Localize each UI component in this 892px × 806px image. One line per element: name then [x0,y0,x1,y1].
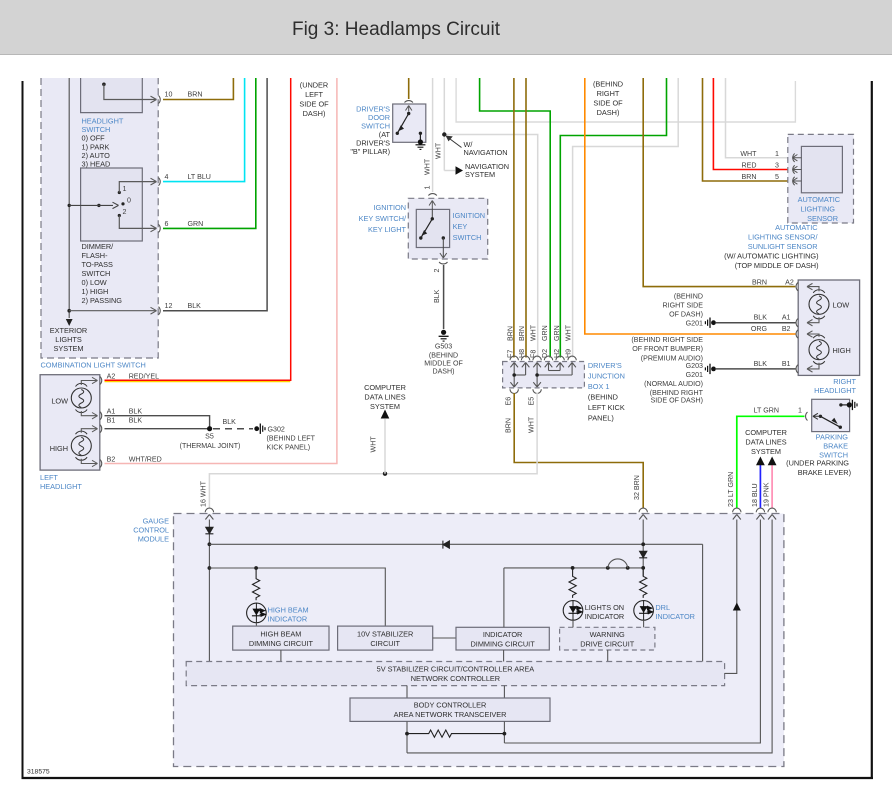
svg-text:DIMMING CIRCUIT: DIMMING CIRCUIT [249,639,314,648]
svg-text:2: 2 [433,269,441,273]
GCM pin 23 connector [733,508,741,519]
svg-text:PARKING: PARKING [816,433,849,442]
wire LED to warning drive circuit [572,620,574,627]
svg-text:LIGHTING SENSOR/: LIGHTING SENSOR/ [748,233,818,242]
svg-text:DATA LINES: DATA LINES [364,393,405,402]
pin B1 connector (right headlight) [754,360,798,373]
svg-text:BRN: BRN [505,418,513,433]
svg-text:BRN: BRN [742,173,757,181]
pin B2 connector (left headlight) [100,456,162,468]
diagram frame left border [22,81,24,779]
svg-text:HIGH BEAM: HIGH BEAM [268,606,309,615]
svg-text:B1: B1 [107,416,116,424]
dimmer switch label [82,242,123,305]
svg-text:LT BLU: LT BLU [188,173,211,181]
svg-text:B2: B2 [782,325,791,333]
svg-text:RIGHT: RIGHT [833,377,856,386]
junction box top connectors [510,356,576,360]
svg-text:DIMMER/: DIMMER/ [82,242,115,251]
svg-text:B2: B2 [107,456,116,464]
svg-text:INDICATOR: INDICATOR [483,630,523,639]
svg-text:(BEHIND: (BEHIND [674,292,703,300]
transceiver lower wires [406,721,408,753]
svg-text:BOX 1: BOX 1 [588,382,610,391]
right headlight internal wires [807,283,819,372]
node: pin 12 junction [67,309,71,313]
svg-text:TO-PASS: TO-PASS [82,260,114,269]
svg-text:LEFT: LEFT [305,90,323,99]
wire BLU arrow to computer data lines [751,457,765,509]
data line (gray, top loop) [456,78,795,122]
GCM pin 18 connector [756,508,764,519]
bulb LOW (left headlight) [51,383,91,412]
pin B1 connector (left headlight) [100,416,142,432]
svg-text:FLASH-: FLASH- [82,251,109,260]
svg-text:SUNLIGHT SENSOR: SUNLIGHT SENSOR [748,242,818,251]
GCM internal: pin 32 branch [642,520,644,577]
headlight switch label [82,117,124,169]
svg-text:ORG: ORG [751,325,767,333]
svg-text:318575: 318575 [27,769,50,776]
svg-text:KEY LIGHT: KEY LIGHT [368,225,407,234]
wire LT GRN parking brake to GCM pin 23 [737,416,805,508]
wire WHT navigation branch (from top edge) [435,78,538,358]
LED DRL indicator [634,601,654,621]
svg-text:LIGHTING: LIGHTING [800,205,835,214]
right headlight box [798,280,859,395]
GCM pin 16 connector [205,508,213,519]
sensor pin 5 connector [742,173,802,185]
svg-text:1: 1 [424,186,432,190]
svg-text:6: 6 [165,220,169,228]
internal wires left headlight [81,377,97,466]
svg-text:(UNDER PARKING: (UNDER PARKING [786,459,849,468]
stub high beam box to 5V box [280,650,282,661]
svg-text:23 LT GRN: 23 LT GRN [727,472,735,507]
svg-text:LT GRN: LT GRN [754,407,779,415]
svg-text:PANEL): PANEL) [588,414,614,423]
wire LT BLU from pin 4 (up to top edge) [163,78,245,182]
wire ORG to right headlight B2 (from top edge) [585,78,796,334]
junction box internal nodes [512,373,516,377]
wire BRN to right headlight A2 (from top edge) [643,78,795,287]
svg-text:COMPUTER: COMPUTER [745,428,787,437]
svg-text:BLK: BLK [188,302,202,310]
box: warning drive circuit (dashed) [560,627,655,650]
svg-text:DASH): DASH) [432,367,454,375]
svg-text:HIGH: HIGH [50,444,68,453]
svg-text:DRIVER'S: DRIVER'S [588,361,622,370]
svg-text:BLK: BLK [754,314,768,322]
svg-text:WARNING: WARNING [590,630,625,639]
svg-text:DRIVE CIRCUIT: DRIVE CIRCUIT [580,640,635,649]
wire WHT to junction H9 (from top edge) [573,78,679,358]
parking brake switch box [812,399,852,431]
svg-text:RIGHT SIDE: RIGHT SIDE [663,301,704,309]
svg-text:INDICATOR: INDICATOR [585,612,625,621]
box: 10V stabilizer circuit [338,626,433,650]
svg-text:5: 5 [775,173,779,181]
svg-text:SWITCH: SWITCH [453,233,482,242]
svg-text:HIGH BEAM: HIGH BEAM [260,630,301,639]
svg-text:F8: F8 [530,350,538,358]
svg-text:10V STABILIZER: 10V STABILIZER [357,630,413,639]
computer data lines system (right) [745,428,787,456]
svg-text:HIGH: HIGH [833,346,851,355]
GCM internal: pin 18 branch (BLU) [504,520,760,744]
svg-text:OF FRONT BUMPER): OF FRONT BUMPER) [632,345,703,353]
GCM internal: pin 19 branch (PNK) [407,520,772,753]
note: under left side of dash [299,81,329,119]
ground G203/G201 (B1) [631,336,716,405]
svg-text:DRL: DRL [655,603,670,612]
node: computer data lines branch (left) [364,383,406,476]
svg-text:SYSTEM: SYSTEM [751,447,781,456]
svg-text:DIMMING CIRCUIT: DIMMING CIRCUIT [471,640,536,649]
pin A2 connector (left headlight) [100,373,159,385]
wire BRN to junction H8 (from top edge) [525,78,527,358]
node at DRL column [641,566,645,570]
GCM internal: pin 16 branch [208,520,210,662]
node at lights-on column [571,566,575,570]
svg-text:E5: E5 [528,397,536,406]
svg-text:BRAKE LEVER): BRAKE LEVER) [798,468,851,477]
svg-text:WHT: WHT [424,158,432,175]
wire WHT/RED from B2 (up to top edge) [105,78,337,464]
wire BLK G203 to B1 [716,368,796,370]
svg-text:AREA NETWORK TRANSCEIVER: AREA NETWORK TRANSCEIVER [394,710,507,719]
wire RED to lighting sensor pin 3 (from top edge) [713,78,793,170]
left headlight box [40,375,100,491]
pin 10 connector [159,91,203,104]
wire BRN from E6 to GCM pin 32 [505,393,644,508]
svg-text:(BEHIND RIGHT SIDE: (BEHIND RIGHT SIDE [631,336,703,344]
driver's door switch label [350,105,390,157]
DRL indicator label [655,603,695,621]
node on right transceiver leg [503,732,507,736]
svg-text:G503: G503 [435,342,452,350]
svg-text:(NORMAL AUDIO): (NORMAL AUDIO) [644,380,703,388]
box: body controller area network transceiver [350,698,550,721]
svg-text:5V STABILIZER CIRCUIT/CONTROLL: 5V STABILIZER CIRCUIT/CONTROLLER AREA [377,665,535,674]
sensor pin 3 connector [742,162,802,174]
resistor (DRL indicator) [640,568,647,598]
wire: combination switch common feed (vertical, from top) [68,78,70,318]
wires 5V box to transceiver [406,686,408,698]
svg-text:BLK: BLK [754,360,768,368]
svg-text:LIGHTS ON: LIGHTS ON [585,603,624,612]
svg-text:SYSTEM: SYSTEM [370,402,400,411]
pin B2 connector (right headlight) [751,325,798,338]
svg-text:1: 1 [775,150,779,158]
GCM bus line 2b (indicators) [504,567,643,569]
diagram frame right border [871,81,873,779]
svg-text:BLK: BLK [223,418,237,426]
svg-text:B1: B1 [782,360,791,368]
node junctions on pin16 line [208,542,212,546]
svg-text:WHT: WHT [530,324,538,341]
svg-text:BRN: BRN [752,279,767,287]
ground (parking brake switch) [852,400,857,410]
sensor caption [724,223,818,270]
svg-text:1: 1 [123,185,127,193]
svg-text:IGNITION: IGNITION [453,211,485,220]
pin A2 connector (right headlight) [752,279,798,291]
ignition key switch / key light box [408,194,487,259]
node on left transceiver leg [405,732,409,736]
svg-text:CONTROL: CONTROL [133,526,169,535]
wire WHT to lighting sensor pin 1 (from top edge) [726,78,794,158]
svg-text:RIGHT: RIGHT [597,89,620,98]
wire BRN to lighting sensor pin 5 (from top edge) [703,78,794,181]
svg-text:LEFT: LEFT [40,473,58,482]
driver's junction box 1 [503,362,585,388]
resistor (lights on indicator) [569,568,576,598]
svg-text:(BEHIND: (BEHIND [429,351,458,359]
resistor (CAN termination) [407,730,505,737]
svg-text:LIGHTS: LIGHTS [55,335,82,344]
lights on indicator label [585,603,625,621]
svg-text:32 BRN: 32 BRN [633,475,641,500]
svg-text:2) PASSING: 2) PASSING [82,296,123,305]
svg-text:3) HEAD: 3) HEAD [82,159,111,168]
svg-text:GRN: GRN [541,325,549,341]
svg-text:G201: G201 [686,371,703,379]
svg-text:A1: A1 [107,408,116,416]
junction box labels [588,361,625,423]
svg-text:(BEHIND: (BEHIND [588,393,618,402]
svg-text:18 BLU: 18 BLU [751,483,759,507]
ground (driver's door switch) [416,145,426,150]
ignition key switch labels [359,203,485,242]
dimmer/flash-to-pass switch (inner box) [68,168,157,241]
node: high beam branch [254,566,258,570]
node: W/ NAVIGATION junction [442,132,507,157]
combination light switch box [41,78,159,370]
svg-text:NAVIGATION: NAVIGATION [464,148,508,157]
high beam indicator label [268,606,309,624]
sensor pin 1 connector [740,150,801,162]
wire to pin 12 [69,310,156,312]
svg-text:G302: G302 [268,425,285,433]
svg-text:DASH): DASH) [597,108,620,117]
diode at pin 16 [205,527,213,534]
bulb HIGH (right headlight) [809,335,851,364]
wire 10V stabilizer to indicator dimming [433,637,456,639]
wire BLK from A1 to S5 [105,416,210,429]
pin 6 connector [159,220,204,233]
svg-text:2: 2 [123,208,127,216]
svg-text:IGNITION: IGNITION [374,203,406,212]
wire DRL LED to warning drive circuit [643,620,645,627]
svg-text:RED/YEL: RED/YEL [129,373,159,381]
svg-text:(UNDER: (UNDER [300,81,328,90]
junction pin labels (rotated) [507,324,573,358]
svg-text:BLK: BLK [433,289,441,303]
svg-text:KEY: KEY [453,222,468,231]
svg-text:CIRCUIT: CIRCUIT [370,639,400,648]
ignition key switch (inner box) [416,201,449,264]
svg-text:GRN: GRN [188,220,204,228]
ground G503 [424,330,463,376]
svg-text:0: 0 [127,197,131,205]
wire GRN from pin 6 (up to top edge) [163,78,256,228]
svg-text:AUTOMATIC: AUTOMATIC [775,223,818,232]
ground G201 (A1) [663,292,716,328]
junction box bottom connectors E6 E5 [505,389,542,405]
wire WHT from E5 to GCM pin 16 [200,393,538,508]
svg-text:SIDE OF: SIDE OF [593,99,623,108]
svg-text:HEADLIGHT: HEADLIGHT [814,386,856,395]
LED high beam indicator [247,603,267,623]
svg-text:LOW: LOW [51,397,68,406]
svg-text:GAUGE: GAUGE [143,517,170,526]
wire RED/YEL from A2 (up to top edge) [105,78,291,382]
svg-text:0) LOW: 0) LOW [82,278,107,287]
automatic lighting sensor box [788,134,854,223]
svg-text:(BEHIND: (BEHIND [593,80,623,89]
wire BLK from pin 12 (up to top edge) [163,78,267,311]
node on bus line 1 at pin 32 [641,542,645,546]
wire BLK dashed S5 to G302 [213,418,253,429]
svg-text:COMPUTER: COMPUTER [364,383,406,392]
svg-text:OF DASH): OF DASH) [669,310,703,318]
wire BRN to junction F7 (from top edge) [513,78,515,358]
svg-text:KICK PANEL): KICK PANEL) [267,444,311,452]
pin A1 connector (left headlight) [100,408,142,420]
svg-text:Fig 3: Headlamps Circuit: Fig 3: Headlamps Circuit [292,19,501,40]
svg-text:G203: G203 [686,362,703,370]
wire LED to high beam dimming circuit [255,623,257,626]
svg-text:MODULE: MODULE [138,535,169,544]
note: behind right side of dash (top) [593,80,623,118]
wire GRN to junction H2 (from top edge) [560,78,666,358]
jumper hop on bus line 2b [606,559,630,570]
svg-text:16 WHT: 16 WHT [200,480,208,507]
svg-text:A2: A2 [785,279,794,287]
svg-text:WHT: WHT [740,150,757,158]
svg-text:(BEHIND LEFT: (BEHIND LEFT [267,435,316,443]
svg-text:SENSOR: SENSOR [807,214,838,223]
box: indicator dimming circuit [456,627,549,650]
svg-text:WHT: WHT [435,142,443,159]
svg-text:19 PNK: 19 PNK [763,482,771,507]
svg-text:(THERMAL JOINT): (THERMAL JOINT) [180,442,241,450]
svg-text:SIDE OF DASH): SIDE OF DASH) [651,397,703,405]
GCM pin 19 connector [768,508,776,519]
wire BRN from pin 10 (up to top edge) [163,78,233,100]
svg-text:SIDE OF: SIDE OF [299,100,329,109]
svg-text:A1: A1 [782,314,791,322]
GCM internal: pin 23 branch (LT GRN) [725,520,741,674]
LED lights on indicator [563,601,583,621]
svg-text:WHT: WHT [528,416,536,433]
svg-text:SYSTEM: SYSTEM [53,344,83,353]
box: 5V stabilizer / CAN controller (dashed) [186,662,724,686]
box: high beam dimming circuit [233,626,329,650]
GCM pin 32 connector [639,508,647,519]
svg-text:3: 3 [775,162,779,170]
arrow to exterior lights system [66,319,73,326]
pin 12 connector [159,302,202,315]
svg-text:4: 4 [165,173,169,181]
svg-text:LEFT KICK: LEFT KICK [588,403,625,412]
svg-text:EXTERIOR: EXTERIOR [50,326,87,335]
svg-text:HEADLIGHT: HEADLIGHT [40,482,82,491]
svg-text:BRN: BRN [188,91,203,99]
gauge control module box [133,514,784,767]
wire BLK from B1 to S5 [105,428,210,430]
svg-text:SWITCH: SWITCH [82,269,111,278]
svg-text:A2: A2 [107,373,116,381]
svg-text:S5: S5 [205,433,214,441]
wire BLK G201 to A1 [716,322,796,324]
svg-text:RED: RED [742,162,757,170]
svg-text:BRN: BRN [507,326,515,341]
title bar [0,0,892,55]
wire BLK ignition to G503 [433,265,444,329]
wire PNK arrow to computer data lines [763,457,777,509]
pin 4 connector [159,173,211,186]
node: exterior lights label [50,326,87,353]
svg-text:(TOP MIDDLE OF DASH): (TOP MIDDLE OF DASH) [735,261,819,270]
bulb LOW (right headlight) [809,290,849,319]
diode on bus line 1 [443,541,450,549]
svg-text:INDICATOR: INDICATOR [655,612,695,621]
svg-text:BLK: BLK [129,416,143,424]
diode at pin 32 [639,551,647,558]
svg-text:(W/ AUTOMATIC LIGHTING): (W/ AUTOMATIC LIGHTING) [724,252,818,261]
svg-text:LOW: LOW [833,301,850,310]
wire BRN to driver's door switch (from top edge) [408,78,410,99]
svg-text:BLK: BLK [129,408,143,416]
svg-text:"B" PILLAR): "B" PILLAR) [350,147,390,156]
driver's door switch connector [405,101,413,103]
diagram frame bottom border [22,777,874,779]
GCM bus line 2 (to 10V stabilizer) [209,568,385,627]
ground G302 [254,424,315,452]
junction box internal wiring [510,363,575,388]
svg-text:WHT: WHT [565,324,573,341]
svg-text:E6: E6 [505,397,513,406]
svg-text:1) HIGH: 1) HIGH [82,287,109,296]
svg-text:12: 12 [165,302,173,310]
svg-text:NETWORK CONTROLLER: NETWORK CONTROLLER [411,674,500,683]
stub warning box to 5V box [607,650,609,662]
svg-text:GRN: GRN [553,325,561,341]
parking brake switch labels [786,433,851,478]
wire WHT to ignition key switch (from top edge) [424,78,433,192]
arrow to navigation system [456,162,510,179]
svg-text:DASH): DASH) [303,109,326,118]
headlight switch (inner box, cut off at top) [81,78,157,113]
svg-text:INDICATOR: INDICATOR [268,615,308,624]
svg-text:DATA LINES: DATA LINES [745,438,786,447]
resistor (high beam indicator) [253,568,260,600]
svg-text:F7: F7 [507,350,515,358]
driver's door switch [393,104,426,145]
svg-text:WHT: WHT [370,436,378,453]
svg-text:KEY SWITCH/: KEY SWITCH/ [359,214,407,223]
bulb HIGH (left headlight) [50,431,92,460]
svg-text:BODY CONTROLLER: BODY CONTROLLER [414,701,487,710]
node S5 thermal joint [180,426,241,450]
wire GRN to junction D2 (from top edge) [480,78,551,358]
svg-text:MIDDLE OF: MIDDLE OF [424,359,463,367]
parking brake pin 1 connector [754,407,808,421]
svg-text:SYSTEM: SYSTEM [465,170,495,179]
svg-text:BRAKE: BRAKE [823,442,848,451]
